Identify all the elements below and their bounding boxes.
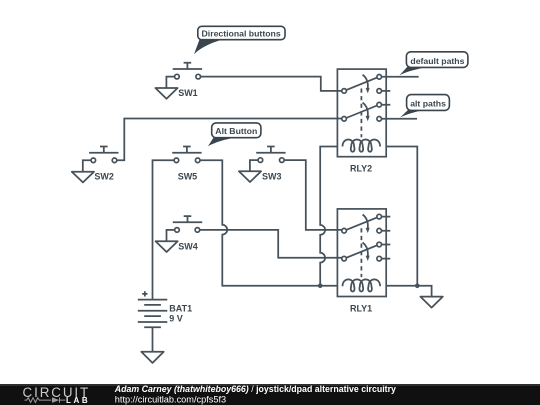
wire RLY1 coil right to ground bbox=[386, 286, 431, 297]
relay RLY2 bbox=[337, 69, 390, 157]
footer logo resistor-diode squiggle bbox=[25, 398, 66, 403]
wire SW2 right terminal to RLY2 pole2 common bbox=[117, 119, 342, 161]
svg-text:SW1: SW1 bbox=[178, 88, 198, 98]
svg-text:BAT1: BAT1 bbox=[169, 303, 192, 313]
relay RLY1 bbox=[337, 209, 390, 297]
ground at SW4 bbox=[156, 241, 178, 252]
wire RLY2 coil right down to ground bus bbox=[386, 147, 417, 286]
annotation callout alt paths bbox=[400, 95, 449, 118]
wire SW3 right terminal to RLY1 pole1 common bbox=[284, 160, 342, 230]
battery BAT1 bbox=[138, 291, 168, 351]
annotation callout default paths bbox=[399, 52, 468, 76]
junction coil bus at SW5 wire bbox=[318, 283, 323, 288]
svg-text:default paths: default paths bbox=[410, 56, 464, 66]
junction ground bus bbox=[415, 284, 420, 289]
svg-text:Alt Button: Alt Button bbox=[215, 126, 257, 136]
ground at relay coils (bottom right) bbox=[420, 297, 442, 308]
svg-text:RLY2: RLY2 bbox=[350, 164, 372, 174]
wire SW1 right terminal to RLY2 pole1 common bbox=[200, 77, 341, 91]
wire SW4 right terminal to RLY1 pole2 common bbox=[200, 230, 342, 258]
svg-text:Directional buttons: Directional buttons bbox=[202, 29, 281, 39]
svg-text:SW5: SW5 bbox=[178, 172, 198, 182]
pushbutton SW3 bbox=[250, 147, 286, 172]
annotation callout Directional buttons bbox=[194, 26, 285, 54]
annotation callout Alt Button bbox=[208, 123, 261, 146]
svg-text:http://circuitlab.com/cpfs5f3: http://circuitlab.com/cpfs5f3 bbox=[115, 394, 226, 404]
ground at SW1 bbox=[155, 88, 177, 99]
wire RLY2 pole1 top throw stub (default paths) bbox=[382, 76, 419, 78]
pushbutton SW4 bbox=[167, 216, 203, 241]
footer bar bbox=[0, 384, 540, 405]
svg-text:SW3: SW3 bbox=[262, 171, 282, 181]
pushbutton SW5 bbox=[172, 147, 201, 163]
svg-text:9 V: 9 V bbox=[169, 313, 183, 323]
ground at SW3 bbox=[239, 171, 261, 182]
svg-text:alt paths: alt paths bbox=[410, 99, 446, 109]
wire RLY2 coil left down to coil bus (hops two horizontals) bbox=[320, 147, 337, 286]
wire RLY2 pole2 bottom throw stub (alt paths) bbox=[382, 118, 418, 120]
pushbutton SW1 bbox=[166, 63, 202, 88]
pushbutton SW2 bbox=[83, 147, 119, 172]
svg-text:LAB: LAB bbox=[66, 396, 90, 405]
wire SW5 left terminal to battery positive bbox=[153, 160, 175, 299]
svg-text:SW2: SW2 bbox=[94, 172, 114, 182]
svg-text:SW4: SW4 bbox=[178, 241, 198, 251]
svg-text:Adam Carney (thatwhiteboy666): Adam Carney (thatwhiteboy666) / joystick… bbox=[114, 384, 396, 394]
svg-text:RLY1: RLY1 bbox=[350, 304, 372, 314]
wire SW5 right terminal down to RLY1 coil left (hops SW4 wire) bbox=[200, 160, 338, 285]
ground at battery bbox=[141, 352, 163, 363]
ground at SW2 bbox=[72, 172, 94, 183]
